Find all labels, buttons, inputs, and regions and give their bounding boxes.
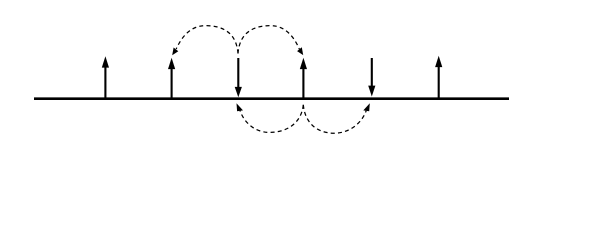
exchange arc top-right (dashed) <box>238 26 303 55</box>
exchange arc bottom-left (dashed) <box>237 103 304 132</box>
spin up arrow 2 <box>168 58 175 99</box>
spin up arrow 6 <box>435 56 442 99</box>
spin down arrow 5 <box>368 58 375 97</box>
exchange arc top-left (dashed) <box>172 26 238 56</box>
exchange arc bottom-right (dashed) <box>303 103 370 133</box>
spin up arrow 1 <box>102 56 109 99</box>
spin up arrow 4 <box>300 58 307 99</box>
baseline (lattice line) <box>34 97 509 100</box>
spin down arrow 3 <box>235 58 242 97</box>
